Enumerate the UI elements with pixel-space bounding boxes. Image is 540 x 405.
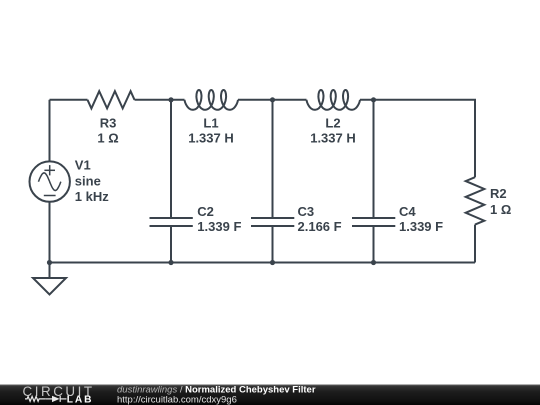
logo diode triangle xyxy=(52,396,60,402)
svg-text:1 Ω: 1 Ω xyxy=(97,131,118,146)
bottom junction dot C3 xyxy=(270,260,275,265)
svg-text:1.337 H: 1.337 H xyxy=(188,131,234,146)
node C junction dot xyxy=(371,97,376,102)
node B junction dot xyxy=(270,97,275,102)
capacitor C3 plates xyxy=(251,217,294,219)
wire top-left vertical (V1 top lead) xyxy=(49,100,51,162)
svg-text:1.339 F: 1.339 F xyxy=(197,219,241,234)
logo resistor glyph xyxy=(25,396,46,401)
capacitor C4 plates xyxy=(352,217,395,219)
svg-text:V1: V1 xyxy=(75,157,91,172)
inductor L1 xyxy=(185,90,239,110)
svg-text:1 Ω: 1 Ω xyxy=(490,202,511,217)
svg-text:R2: R2 xyxy=(490,186,507,201)
svg-text:C3: C3 xyxy=(298,204,315,219)
capacitor C4 top lead xyxy=(373,100,375,218)
svg-text:1 kHz: 1 kHz xyxy=(75,189,109,204)
wire bottom rail xyxy=(50,262,476,264)
svg-text:L2: L2 xyxy=(325,115,340,130)
V1 minus sign xyxy=(44,195,56,197)
svg-text:1.337 H: 1.337 H xyxy=(310,131,356,146)
resistor R3 xyxy=(88,91,135,108)
ground symbol xyxy=(33,278,66,295)
svg-text:http://circuitlab.com/cdxy9g6: http://circuitlab.com/cdxy9g6 xyxy=(117,394,237,405)
capacitor C3 top lead xyxy=(272,100,274,218)
bottom junction dot C4 xyxy=(371,260,376,265)
voltage source V1 circle xyxy=(30,161,70,201)
svg-text:1.339 F: 1.339 F xyxy=(399,219,443,234)
logo wire to LAB xyxy=(60,398,66,400)
svg-text:sine: sine xyxy=(75,174,101,189)
wire L2 to top-right corner xyxy=(360,100,475,177)
capacitor C3 bottom lead xyxy=(272,226,274,263)
capacitor C2 plates xyxy=(150,217,193,219)
capacitor C2 bottom lead xyxy=(170,226,172,263)
logo diode cathode bar xyxy=(59,396,61,402)
V1 sine waveform xyxy=(38,173,61,191)
ground stub wire xyxy=(49,263,51,279)
svg-text:L1: L1 xyxy=(203,115,218,130)
wire top rail left segment (R3 left lead) xyxy=(50,99,88,101)
wire V1 bottom lead xyxy=(49,202,51,263)
ground node junction dot xyxy=(47,260,52,265)
logo diode glyph wire xyxy=(46,398,52,400)
V1 plus sign xyxy=(44,169,55,171)
footer bar xyxy=(0,385,540,405)
node A junction dot xyxy=(168,97,173,102)
wire L1 to node B xyxy=(238,99,307,101)
svg-text:C4: C4 xyxy=(399,204,416,219)
svg-text:R3: R3 xyxy=(100,115,117,130)
svg-text:LAB: LAB xyxy=(67,394,94,405)
svg-text:C2: C2 xyxy=(197,204,214,219)
bottom junction dot C2 xyxy=(168,260,173,265)
capacitor C4 bottom lead xyxy=(373,226,375,263)
capacitor C2 top lead xyxy=(170,100,172,218)
inductor L2 xyxy=(307,90,361,110)
wire R2 bottom lead to bottom-right corner xyxy=(474,225,476,263)
wire R3 to node A xyxy=(135,99,185,101)
resistor R2 xyxy=(466,177,485,224)
svg-text:2.166 F: 2.166 F xyxy=(298,219,342,234)
